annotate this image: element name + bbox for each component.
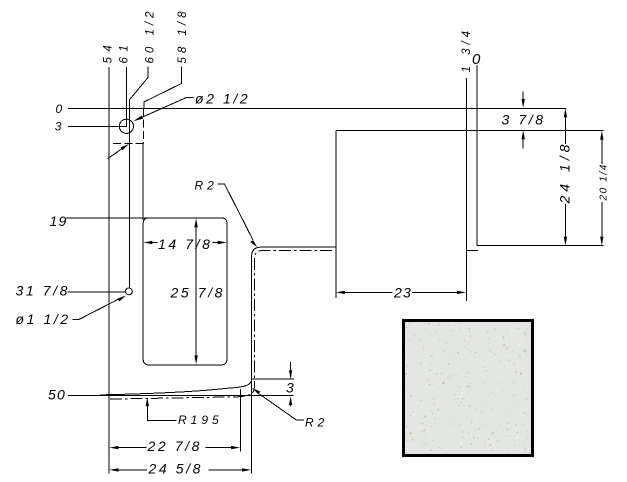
arrowhead dim 20 1/4 bottom [600,237,603,246]
wire extension line y=245.6 [477,245,604,247]
arrowhead dim 25 7/8 top [194,218,197,227]
dimension 14 7/8 line stubs [152,242,218,244]
leader R2 bottom [260,394,304,420]
leader diameter 1 1/2 [73,299,119,319]
node 60 1/2 leader polyline [129,67,147,289]
node 58 1/8 leader polyline [144,67,182,109]
dimension 20 1/4 line stubs [601,140,603,237]
svg-text:R2: R2 [195,179,218,193]
wire top edge of right rectangle with extension [336,129,604,131]
arrowhead dim 3 7/8 bottom [522,130,525,139]
svg-text:0: 0 [472,51,481,68]
arrowhead dim 3 right bottom [289,396,292,405]
node 3 horizontal reference line [68,125,127,127]
arrowhead dim 23 right [457,291,466,294]
arrowhead leader d1 1/2 [117,295,126,301]
svg-text:58 1/8: 58 1/8 [177,8,189,64]
node 1 3/4 vertical line / right rectangle right edge [465,78,467,301]
svg-text:14 7/8: 14 7/8 [158,236,213,252]
dimension 22 7/8 line stubs [118,447,232,449]
svg-text:R195: R195 [178,413,223,427]
node 0 horizontal reference line [68,107,567,109]
arrowhead dim 14 7/8 right [218,241,227,244]
dimension 24 1/8 line stubs [564,117,566,236]
node 19 horizontal reference line [66,217,146,219]
svg-text:24 1/8: 24 1/8 [557,141,573,205]
svg-text:54: 54 [103,40,115,64]
arrowhead dim 3 7/8 top [522,99,525,108]
node 0 top-right vertical line [476,65,478,246]
svg-text:22 7/8: 22 7/8 [147,438,203,454]
leader R195 [147,406,176,420]
svg-text:25 7/8: 25 7/8 [170,285,226,301]
countertop edge centerline dash-dot [110,250,334,399]
arrowhead dim 24 5/8 right [242,468,251,471]
sink cutout rounded rectangle [143,218,227,365]
wire sink rect upper left edge [142,143,144,220]
arrowhead dim 3 right top [289,370,292,379]
svg-text:19: 19 [50,213,68,229]
svg-text:31 7/8: 31 7/8 [16,283,71,299]
arrowhead dim 24 5/8 left [109,468,118,471]
arrowhead leader R2 top [250,240,257,247]
wire rectangle bottom tick [466,249,477,251]
faucet hole circle d2 1/2 [119,119,133,133]
svg-text:3: 3 [286,380,296,396]
arrowhead dim 22 7/8 right [231,446,240,449]
arrowhead leader R2 bottom [252,388,260,395]
wire hidden dashed vertical [143,109,145,144]
dimension 3 right line stubs [290,362,292,406]
leader diameter 2 1/2 [141,98,194,118]
svg-text:20 1/4: 20 1/4 [599,163,610,201]
arrowhead dim 22 7/8 left [109,446,118,449]
svg-text:61: 61 [119,40,131,64]
wire extension line y=379.2 [252,378,295,380]
svg-text:0: 0 [56,102,67,116]
svg-text:24 5/8: 24 5/8 [148,461,204,477]
wire extension for 22 7/8 [240,389,242,452]
node 54 vertical coordinate line [108,67,110,474]
svg-text:ø2 1/2: ø2 1/2 [195,91,250,107]
node 61 vertical coordinate line [125,67,127,126]
svg-text:3: 3 [55,120,66,134]
svg-text:R2: R2 [305,416,328,430]
wire extension for 24 5/8 [251,379,253,473]
hole circle d1 1/2 [125,288,132,295]
arrowhead dim 23 left [336,291,345,294]
svg-text:ø1 1/2: ø1 1/2 [16,311,71,327]
leader 31 7/8 [68,291,126,293]
dimension 3 7/8 line stubs [522,92,524,149]
arrowhead dim 24 1/8 bottom [564,237,567,246]
countertop edge S-contour solid [100,247,335,395]
svg-text:60 1/2: 60 1/2 [144,8,156,64]
arrowhead leader R195 [146,397,149,406]
arrowhead leader d2 1/2 [133,116,143,122]
svg-text:3 7/8: 3 7/8 [502,112,546,128]
dimension 25 7/8 line stubs [195,227,197,356]
wire hidden dashed horizontal [110,142,144,144]
svg-text:50: 50 [48,387,66,403]
arrowhead dim 14 7/8 left [143,241,152,244]
dimension 24 5/8 line stubs [118,469,243,471]
material swatch sample box [402,319,534,457]
node 50 baseline front edge [68,395,294,397]
arrowhead dim 20 1/4 top [600,131,603,140]
leader to dashed corner [108,149,122,159]
leader R2 top [218,184,253,240]
arrowhead dim 25 7/8 bottom [194,355,197,364]
dimension 23 line stubs [345,291,458,293]
arrowhead leader dashed corner [120,144,129,150]
wire right rectangle left edge [335,130,337,298]
arrowhead dim 24 1/8 top [564,108,567,117]
svg-text:23: 23 [393,285,412,301]
